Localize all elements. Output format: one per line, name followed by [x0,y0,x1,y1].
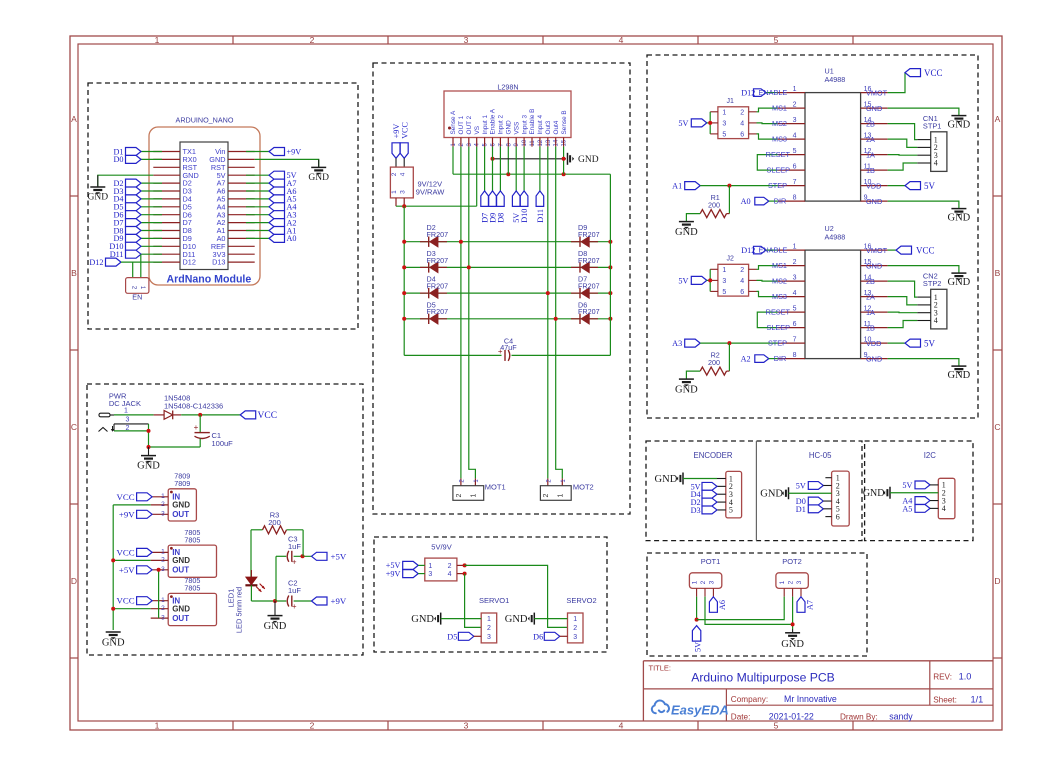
svg-text:GND: GND [948,213,971,224]
svg-text:2: 2 [310,35,315,45]
svg-text:D12: D12 [741,89,755,98]
svg-text:4: 4 [448,571,452,578]
svg-text:2: 2 [487,625,491,632]
svg-text:J1: J1 [727,98,735,105]
svg-text:MS3: MS3 [772,292,787,301]
svg-text:1: 1 [161,493,165,500]
svg-text:D: D [71,576,77,586]
svg-text:1: 1 [155,35,160,45]
svg-text:3: 3 [793,274,797,281]
svg-text:5: 5 [774,721,779,731]
svg-text:1B: 1B [866,323,875,332]
svg-text:Sheet:: Sheet: [933,696,957,705]
svg-text:2B: 2B [866,119,875,128]
svg-text:Input 1: Input 1 [482,115,489,135]
svg-text:STP2: STP2 [923,279,941,288]
svg-text:10: 10 [522,139,528,146]
svg-text:VCC: VCC [258,411,278,421]
svg-text:200: 200 [708,201,720,210]
svg-text:MS1: MS1 [772,261,787,270]
svg-text:3: 3 [428,571,432,578]
svg-text:EasyEDA: EasyEDA [671,703,729,718]
svg-text:1: 1 [470,493,477,497]
svg-text:4: 4 [942,504,946,513]
svg-text:A4988: A4988 [825,75,846,84]
svg-text:TITLE:: TITLE: [649,663,672,672]
svg-text:MS3: MS3 [772,135,787,144]
svg-text:FR207: FR207 [427,307,449,316]
svg-text:GND: GND [866,261,882,270]
svg-text:13: 13 [546,139,552,146]
svg-text:2: 2 [793,101,797,108]
svg-text:1: 1 [692,580,699,584]
svg-text:SERVO2: SERVO2 [566,596,596,605]
svg-text:GND: GND [172,605,190,614]
svg-text:D5: D5 [447,632,457,641]
svg-text:+9V: +9V [331,596,347,606]
svg-text:FR207: FR207 [578,307,600,316]
svg-text:9V/RAW: 9V/RAW [416,187,445,196]
svg-text:15: 15 [562,139,568,146]
svg-text:C: C [71,422,77,432]
svg-text:GND: GND [866,197,882,206]
svg-text:4: 4 [934,159,938,168]
svg-text:VDD: VDD [866,339,881,348]
svg-text:A3: A3 [672,339,682,348]
svg-text:3: 3 [796,580,803,584]
svg-text:+5V: +5V [119,565,135,575]
svg-text:GND: GND [866,104,882,113]
svg-text:5: 5 [722,289,726,296]
svg-text:VMOT: VMOT [866,88,888,97]
svg-text:5V: 5V [924,338,936,348]
svg-text:REV:: REV: [933,673,952,682]
svg-text:3: 3 [708,580,715,584]
svg-text:Input 3: Input 3 [521,115,528,135]
svg-text:VCC: VCC [117,492,135,502]
svg-text:VS: VS [474,126,481,135]
svg-text:VCC: VCC [401,122,410,139]
svg-text:DIR: DIR [774,354,787,363]
svg-text:FR207: FR207 [427,230,449,239]
svg-text:FR207: FR207 [427,256,449,265]
svg-text:4: 4 [793,132,797,139]
svg-text:GND: GND [760,489,783,500]
svg-text:3: 3 [487,634,491,641]
svg-text:Mr Innovative: Mr Innovative [784,694,837,704]
svg-text:STEP: STEP [768,339,787,348]
svg-text:5V: 5V [924,181,936,191]
svg-text:GND: GND [866,354,882,363]
svg-text:7: 7 [793,179,797,186]
svg-text:A5: A5 [902,504,912,513]
svg-text:1: 1 [793,86,797,93]
svg-text:GND: GND [948,120,971,131]
svg-text:7: 7 [793,336,797,343]
svg-text:5: 5 [729,506,733,515]
svg-text:sandy: sandy [889,711,913,721]
svg-text:GND: GND [578,155,599,165]
svg-text:1: 1 [391,190,398,194]
svg-text:8: 8 [793,352,797,359]
svg-text:8: 8 [793,194,797,201]
svg-text:+9V: +9V [287,147,302,156]
svg-text:D12: D12 [741,246,755,255]
svg-text:L298N: L298N [497,83,518,92]
svg-text:1uF: 1uF [288,586,301,595]
svg-text:Date:: Date: [731,712,751,721]
svg-text:2: 2 [456,493,463,497]
svg-text:VDD: VDD [866,181,881,190]
svg-text:1: 1 [573,616,577,623]
svg-text:6: 6 [740,132,744,139]
svg-text:1N5408-C142336: 1N5408-C142336 [164,401,223,410]
svg-text:1.0: 1.0 [959,672,972,682]
svg-text:LED 5mm red: LED 5mm red [235,587,244,633]
svg-text:GND: GND [172,501,190,510]
svg-text:+: + [498,347,503,356]
svg-text:A: A [995,114,1001,124]
svg-text:12: 12 [538,139,544,146]
svg-text:5V: 5V [694,642,703,652]
svg-text:OUT 2: OUT 2 [466,115,473,134]
svg-text:5: 5 [722,132,726,139]
svg-text:A0: A0 [741,197,751,206]
svg-text:1B: 1B [866,166,875,175]
svg-text:HC-05: HC-05 [809,451,832,460]
svg-text:GND: GND [411,614,434,625]
svg-text:1: 1 [793,243,797,250]
svg-text:3: 3 [400,190,407,194]
svg-text:11: 11 [530,140,536,147]
svg-text:1: 1 [722,267,726,274]
svg-text:OUT: OUT [172,510,189,519]
svg-text:ArdNano Module: ArdNano Module [167,274,252,286]
svg-text:6: 6 [740,289,744,296]
svg-text:B: B [71,268,77,278]
svg-text:1A: 1A [866,150,875,159]
svg-text:5V: 5V [678,276,688,285]
svg-text:Input 4: Input 4 [537,115,544,135]
svg-text:3: 3 [793,117,797,124]
svg-text:VCC: VCC [924,68,943,78]
svg-text:3: 3 [464,721,469,731]
svg-text:FR207: FR207 [427,282,449,291]
svg-text:5V: 5V [796,481,806,490]
svg-text:GND: GND [675,385,698,396]
svg-text:RESET: RESET [766,308,791,317]
svg-text:GND: GND [655,474,678,485]
svg-text:+9V: +9V [119,509,135,519]
svg-text:STEP: STEP [768,181,787,190]
svg-text:Enable A: Enable A [490,108,497,134]
svg-text:FR207: FR207 [578,230,600,239]
svg-text:2: 2 [793,259,797,266]
svg-text:3: 3 [464,35,469,45]
svg-text:J2: J2 [727,255,735,262]
svg-text:GND: GND [264,621,287,632]
svg-text:2: 2 [391,172,398,176]
svg-text:4: 4 [740,121,744,128]
svg-text:1: 1 [124,408,128,415]
svg-text:A2: A2 [741,355,751,364]
svg-text:Drawn By:: Drawn By: [840,712,878,721]
svg-text:7805: 7805 [184,535,200,544]
svg-text:A0: A0 [287,234,297,243]
svg-text:1A: 1A [866,308,875,317]
svg-text:Company:: Company: [731,695,768,704]
svg-text:GND: GND [675,227,698,238]
svg-text:1: 1 [155,721,160,731]
svg-text:GND: GND [505,614,528,625]
svg-text:SERVO1: SERVO1 [479,596,509,605]
svg-text:1: 1 [487,616,491,623]
svg-text:100uF: 100uF [212,439,234,448]
svg-text:2: 2 [740,109,744,116]
svg-text:DC JACK: DC JACK [109,399,141,408]
svg-text:3: 3 [573,634,577,641]
svg-text:200: 200 [268,518,281,527]
svg-text:1: 1 [161,549,165,556]
svg-text:D11: D11 [536,209,545,223]
svg-text:6: 6 [793,163,797,170]
svg-text:GND: GND [863,488,885,499]
svg-text:3: 3 [722,121,726,128]
svg-text:14: 14 [554,139,560,146]
svg-text:3: 3 [161,614,165,621]
svg-text:2A: 2A [866,135,875,144]
svg-text:1: 1 [161,597,165,604]
svg-text:ENABLE: ENABLE [759,88,788,97]
svg-text:2: 2 [310,721,315,731]
svg-text:GND: GND [172,556,190,565]
svg-text:POT2: POT2 [782,557,802,566]
svg-text:GND: GND [88,193,109,203]
svg-text:1/1: 1/1 [971,695,984,705]
svg-text:VCC: VCC [117,596,135,606]
svg-text:Sense B: Sense B [561,110,568,134]
svg-text:GND: GND [308,173,329,183]
svg-text:2: 2 [788,580,795,584]
svg-text:MS1: MS1 [772,104,787,113]
svg-text:FR207: FR207 [578,256,600,265]
svg-text:GND: GND [137,461,160,472]
svg-text:C: C [994,422,1000,432]
svg-text:B: B [995,268,1001,278]
svg-text:VMOT: VMOT [866,246,888,255]
svg-text:A6: A6 [718,600,727,610]
svg-text:1: 1 [557,493,564,497]
svg-text:MS2: MS2 [772,119,787,128]
svg-text:+: + [292,602,297,611]
svg-text:2: 2 [161,557,165,564]
svg-text:MS2: MS2 [772,277,787,286]
svg-text:GND: GND [102,638,125,649]
svg-text:A4988: A4988 [825,232,846,241]
svg-text:6: 6 [836,512,840,521]
svg-text:3: 3 [161,566,165,573]
svg-text:MOT2: MOT2 [573,483,594,492]
svg-text:4: 4 [934,316,938,325]
svg-text:ENABLE: ENABLE [759,246,788,255]
svg-text:1uF: 1uF [288,542,301,551]
svg-text:D: D [994,576,1000,586]
svg-text:+: + [194,423,199,432]
svg-text:SLEEP: SLEEP [766,166,790,175]
svg-text:Arduino Multipurpose PCB: Arduino Multipurpose PCB [691,671,835,685]
svg-text:2: 2 [161,501,165,508]
svg-text:MOT1: MOT1 [485,483,506,492]
svg-text:OUT 1: OUT 1 [458,115,465,134]
svg-text:1: 1 [722,109,726,116]
svg-text:VSS: VSS [513,122,520,135]
svg-text:200: 200 [708,358,720,367]
svg-text:6: 6 [793,321,797,328]
svg-text:Sense A: Sense A [450,110,457,135]
svg-text:2A: 2A [866,292,875,301]
svg-text:+: + [292,558,297,567]
svg-text:D13: D13 [212,258,225,267]
svg-text:3: 3 [126,417,130,424]
svg-text:OUT: OUT [172,614,189,623]
svg-text:VCC: VCC [916,245,935,255]
svg-text:FR207: FR207 [578,282,600,291]
svg-text:I2C: I2C [924,451,937,460]
svg-text:7805: 7805 [184,584,200,593]
svg-text:4: 4 [619,35,624,45]
svg-text:5: 5 [774,35,779,45]
svg-text:5: 5 [793,305,797,312]
svg-text:7809: 7809 [174,479,190,488]
svg-text:2: 2 [573,625,577,632]
svg-text:OUT: OUT [172,566,189,575]
svg-text:DIR: DIR [774,197,787,206]
svg-text:D3: D3 [691,506,701,515]
svg-text:EN: EN [132,293,142,302]
svg-text:D1: D1 [796,505,806,514]
svg-text:2B: 2B [866,277,875,286]
svg-text:4: 4 [740,278,744,285]
svg-text:GND: GND [506,120,513,135]
svg-text:3: 3 [722,278,726,285]
svg-text:+9V: +9V [386,569,401,578]
svg-text:D6: D6 [533,632,543,641]
svg-text:VCC: VCC [117,547,135,557]
svg-text:5V: 5V [678,119,688,128]
svg-text:5: 5 [793,148,797,155]
svg-text:2021-01-22: 2021-01-22 [769,711,814,721]
svg-text:D10: D10 [520,209,529,223]
svg-text:Input 2: Input 2 [498,115,505,135]
svg-text:ARDUINO_NANO: ARDUINO_NANO [176,116,234,125]
svg-text:Out3: Out3 [545,120,552,134]
svg-text:D12: D12 [183,258,196,267]
svg-text:2: 2 [161,605,165,612]
svg-text:+5V: +5V [331,551,347,561]
svg-text:STP1: STP1 [923,122,941,131]
svg-text:A1: A1 [672,182,682,191]
svg-text:1: 1 [428,563,432,570]
svg-text:4: 4 [619,721,624,731]
svg-text:GND: GND [948,370,971,381]
svg-text:GND: GND [781,639,804,650]
svg-text:2: 2 [700,580,707,584]
svg-text:GND: GND [948,277,971,288]
svg-text:D0: D0 [113,155,123,164]
svg-text:4: 4 [793,290,797,297]
svg-text:RESET: RESET [766,150,791,159]
svg-text:D8: D8 [496,213,505,223]
svg-text:2: 2 [740,267,744,274]
svg-text:3: 3 [161,511,165,518]
svg-text:1: 1 [779,580,786,584]
svg-text:POT1: POT1 [701,557,721,566]
svg-text:A: A [71,114,77,124]
svg-text:ENCODER: ENCODER [694,451,733,460]
svg-text:SLEEP: SLEEP [766,323,790,332]
svg-text:5V/9V: 5V/9V [431,543,451,552]
svg-text:4: 4 [400,172,407,176]
svg-text:Out4: Out4 [553,120,560,134]
svg-text:Enable B: Enable B [529,109,536,135]
svg-text:2: 2 [543,493,550,497]
svg-text:A7: A7 [806,600,815,610]
svg-text:5V: 5V [902,481,912,490]
svg-text:D12: D12 [89,258,103,267]
svg-text:2: 2 [448,563,452,570]
